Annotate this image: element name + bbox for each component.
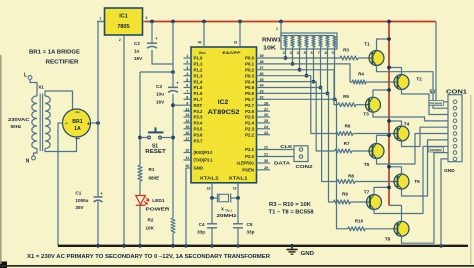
svg-text:R1: R1 xyxy=(149,167,155,172)
resistor R5 xyxy=(338,94,356,107)
wire BR1 minus to ground corner xyxy=(58,123,63,246)
svg-text:XTAL2: XTAL2 xyxy=(200,176,220,181)
svg-text:6: 6 xyxy=(186,84,188,88)
svg-text:31: 31 xyxy=(234,41,238,45)
crystal XTAL 20MHz xyxy=(212,194,238,218)
junction ground bus x140 xyxy=(138,244,142,248)
pin 27 P2.6 of IC2 xyxy=(245,107,270,114)
svg-text:BR1 = 1A BRIDGE: BR1 = 1A BRIDGE xyxy=(29,50,81,56)
svg-text:RECTIFIER: RECTIFIER xyxy=(46,59,79,65)
svg-text:7: 7 xyxy=(318,51,320,55)
pin 17 P3.7 of IC2 xyxy=(184,137,203,144)
svg-text:P3.5: P3.5 xyxy=(194,127,203,132)
svg-text:−: − xyxy=(65,121,68,127)
junction ground bus x238 xyxy=(236,244,240,248)
svg-text:X1 = 230V AC PRIMARY TO SECOND: X1 = 230V AC PRIMARY TO SECONDARY TO 0 –… xyxy=(27,254,270,260)
wire R6 to T4 base xyxy=(353,133,394,135)
wire IC1 input from BR1 plus xyxy=(98,22,105,198)
label XTAL2 xyxy=(200,176,220,181)
pin 21 P2.0 of IC2 xyxy=(245,153,268,160)
svg-text:33p: 33p xyxy=(247,230,255,235)
svg-text:L: L xyxy=(24,73,27,79)
svg-text:T8: T8 xyxy=(385,237,391,243)
pin 32 P0.7 of IC2 xyxy=(245,96,263,103)
wire T4 collector ROW3 to CON1 pin5 xyxy=(402,127,449,146)
svg-text:P1.0: P1.0 xyxy=(194,56,203,61)
pin 11 (TXD)P3.1 of IC2 xyxy=(184,156,214,163)
svg-text:13: 13 xyxy=(185,113,189,117)
wire BR1 plus xyxy=(91,122,99,124)
pin 37 P0.2 of IC2 xyxy=(245,66,263,73)
svg-text:IC2: IC2 xyxy=(218,99,229,106)
caption X1 transformer xyxy=(27,254,270,260)
label ROW7 xyxy=(429,147,444,152)
note R3 - R10 = 10K xyxy=(269,202,311,208)
svg-text:R8: R8 xyxy=(348,174,354,179)
wire P0.7 row xyxy=(257,99,348,229)
wire R8 to T6 base xyxy=(355,181,394,183)
svg-text:GND: GND xyxy=(301,251,315,257)
svg-text:3: 3 xyxy=(186,66,188,70)
led LED1 POWER xyxy=(136,181,171,213)
junction ground bus x173 xyxy=(171,244,175,248)
svg-text:40: 40 xyxy=(198,41,202,45)
svg-text:8: 8 xyxy=(186,96,188,100)
wire T2 emitter to +5V rail xyxy=(389,68,402,75)
+5V rail xyxy=(145,21,436,23)
transistor T7 xyxy=(364,190,382,210)
junction S1 right xyxy=(171,136,175,140)
wire P0.4 row xyxy=(257,82,335,151)
resistor R9 xyxy=(334,192,351,205)
svg-text:10K: 10K xyxy=(263,46,276,52)
svg-text:R4: R4 xyxy=(358,72,364,77)
terminal L xyxy=(24,73,32,80)
svg-text:C3: C3 xyxy=(156,84,162,89)
pin 3 P1.2 of IC2 xyxy=(184,66,203,73)
wire P0.2 row xyxy=(257,70,339,105)
pin 35 P0.4 of IC2 xyxy=(245,78,263,85)
wire RST line upper xyxy=(172,22,174,88)
label ROW0 xyxy=(429,101,444,106)
wire T7 emitter to +5V rail xyxy=(374,187,389,194)
pin 16 P3.6 of IC2 xyxy=(184,131,203,138)
svg-text:X1: X1 xyxy=(38,85,44,91)
svg-text:GND: GND xyxy=(194,166,204,171)
pin 15 P3.5 of IC2 xyxy=(184,125,203,132)
svg-text:P0.6: P0.6 xyxy=(245,91,254,96)
svg-text:10K: 10K xyxy=(146,225,155,230)
svg-text:15: 15 xyxy=(185,125,189,129)
junction tap on RST line xyxy=(171,70,175,74)
svg-text:9: 9 xyxy=(186,101,188,105)
svg-text:P2.6: P2.6 xyxy=(245,109,254,114)
svg-text:20MHz: 20MHz xyxy=(217,213,237,218)
svg-text:18: 18 xyxy=(207,187,211,191)
svg-text:C4: C4 xyxy=(199,222,205,227)
svg-text:(TXD)P3.1: (TXD)P3.1 xyxy=(194,158,214,163)
svg-text:1000u: 1000u xyxy=(75,198,88,203)
svg-text:3: 3 xyxy=(290,51,292,55)
svg-text:CLK: CLK xyxy=(280,144,293,150)
junction RNW1 pin 9 to P0.7 xyxy=(333,97,337,101)
svg-text:26: 26 xyxy=(264,113,268,117)
wire T6 collector ROW5 to CON1 pin7 xyxy=(402,140,449,196)
svg-text:P1.5: P1.5 xyxy=(194,85,203,90)
wire P0.0 row xyxy=(257,57,341,59)
svg-text:P2.7: P2.7 xyxy=(245,103,254,108)
transistor T5 xyxy=(364,144,384,169)
wire T1 collector ROW0 to CON1 pin2 xyxy=(377,65,449,108)
wire RST to IC2 pin 9 xyxy=(173,104,191,106)
pin 7 P1.6 of IC2 xyxy=(184,90,203,97)
junction rail x240 xyxy=(238,20,242,24)
wire T8 collector ROW7 to CON1 pin9 xyxy=(402,153,449,244)
svg-text:P0.4: P0.4 xyxy=(245,79,254,84)
junction RNW1 pin 7 to P0.5 xyxy=(319,86,323,90)
junction rail x204 xyxy=(202,20,206,24)
svg-text:P1.7: P1.7 xyxy=(194,97,203,102)
resistor R1 680E xyxy=(138,165,159,181)
svg-text:BR1: BR1 xyxy=(72,119,82,125)
wire P0.1 row xyxy=(257,64,353,82)
svg-text:1: 1 xyxy=(100,17,102,21)
junction ground bus x124 xyxy=(122,244,126,248)
pin 6 of RNW1 xyxy=(311,47,314,82)
svg-text:T6: T6 xyxy=(414,179,420,185)
svg-text:3: 3 xyxy=(146,16,148,20)
svg-text:230VAC: 230VAC xyxy=(8,117,30,122)
svg-text:POWER: POWER xyxy=(146,207,171,213)
wire T1 emitter to +5V rail xyxy=(377,39,390,51)
pin 9 of RNW1 xyxy=(332,47,335,99)
svg-text:9: 9 xyxy=(332,51,334,55)
pin 10 (RXD)P3.0 of IC2 xyxy=(184,149,214,156)
pin 25 P2.4 of IC2 xyxy=(245,119,270,126)
transistor T4 xyxy=(394,122,410,142)
svg-text:Vcc: Vcc xyxy=(198,50,206,55)
svg-text:P0.0: P0.0 xyxy=(245,56,254,61)
junction RST pin xyxy=(171,103,175,107)
junction crystal right xyxy=(236,196,240,200)
svg-text:P2.4: P2.4 xyxy=(245,121,254,126)
junction rail T5 emitter xyxy=(387,133,391,137)
resistor R8 xyxy=(337,174,355,184)
svg-text:7805: 7805 xyxy=(117,24,129,30)
svg-text:X: X xyxy=(221,207,224,212)
svg-text:N: N xyxy=(26,159,30,165)
resistor network RNW1 xyxy=(262,22,337,52)
svg-text:20: 20 xyxy=(185,164,189,168)
svg-text:P0.7: P0.7 xyxy=(245,97,254,102)
label GND at CON1 xyxy=(444,168,455,174)
wire 5V feed to CON1 xyxy=(436,22,448,102)
wire P0.5 row xyxy=(257,88,338,182)
pin 8 P1.7 of IC2 xyxy=(184,96,203,103)
pin 1 P1.0 of IC2 xyxy=(184,54,203,61)
svg-text:P2.3: P2.3 xyxy=(245,127,254,132)
svg-text:R5: R5 xyxy=(343,94,349,99)
wire T7 collector ROW6 to CON1 pin8 xyxy=(374,146,448,213)
wire L to primary xyxy=(30,79,37,96)
svg-text:R2: R2 xyxy=(148,218,154,223)
resistor R10 xyxy=(348,219,366,231)
svg-text:P2.2: P2.2 xyxy=(245,132,254,137)
svg-text:17: 17 xyxy=(185,137,189,141)
svg-text:PSEN: PSEN xyxy=(242,168,254,173)
svg-text:LED1: LED1 xyxy=(152,198,165,204)
wire R5 to T3 base xyxy=(356,104,366,106)
svg-text:T2: T2 xyxy=(416,77,422,83)
transistor T3 xyxy=(363,97,380,117)
svg-text:T7: T7 xyxy=(364,190,370,196)
svg-text:P1.2: P1.2 xyxy=(194,68,203,73)
microcontroller IC2 AT89C52 xyxy=(191,47,257,183)
ground symbol GND xyxy=(287,244,315,257)
label CLK xyxy=(280,144,293,150)
junction RNW1 pin 5 to P0.3 xyxy=(305,74,309,78)
junction RNW1 pin 8 to P0.6 xyxy=(326,92,330,96)
svg-text:R9: R9 xyxy=(342,192,348,197)
pin 5 P1.4 of IC2 xyxy=(184,78,203,85)
junction RNW1 pin 6 to P0.4 xyxy=(312,80,316,84)
wire CON1 pin10 to ground xyxy=(441,159,448,246)
svg-text:16V: 16V xyxy=(134,56,143,61)
wire R2 to ground xyxy=(172,233,174,246)
svg-text:33p: 33p xyxy=(197,230,205,235)
svg-text:7: 7 xyxy=(186,90,188,94)
svg-text:P0.3: P0.3 xyxy=(245,73,254,78)
svg-text:P3.4: P3.4 xyxy=(194,121,203,126)
junction rail T4 emitter xyxy=(387,119,391,123)
junction rail T3 emitter xyxy=(387,88,391,92)
wire IC1 pin2 to ground xyxy=(123,35,125,246)
svg-text:1: 1 xyxy=(276,27,278,31)
svg-text:EA/VPP: EA/VPP xyxy=(223,50,241,55)
pin 12 P3.2 of IC2 xyxy=(184,107,203,114)
wire R4 to T2 base xyxy=(366,81,394,83)
svg-text:P1.3: P1.3 xyxy=(194,73,203,78)
svg-text:23: 23 xyxy=(264,131,268,135)
junction ground bus x186 xyxy=(184,244,188,248)
svg-text:P1.1: P1.1 xyxy=(194,62,203,67)
svg-text:(RXD)P3.0: (RXD)P3.0 xyxy=(194,150,214,155)
svg-text:35V: 35V xyxy=(75,205,84,210)
svg-text:P0.1: P0.1 xyxy=(245,62,254,67)
pin 39 P0.0 of IC2 xyxy=(245,54,263,61)
pin 4 P1.3 of IC2 xyxy=(184,72,203,79)
pin 33 P0.6 of IC2 xyxy=(245,90,263,97)
junction crystal left xyxy=(210,196,214,200)
svg-text:2: 2 xyxy=(186,60,188,64)
svg-text:+: + xyxy=(87,121,90,127)
label 5V xyxy=(429,89,436,95)
svg-text:∼: ∼ xyxy=(75,137,80,143)
switch S1 RESET xyxy=(140,127,173,155)
connector CON2 xyxy=(294,146,313,170)
junction RNW1 pin 3 to P0.1 xyxy=(291,62,295,66)
pin 40 Vcc stub xyxy=(198,22,204,48)
note T1 - T8 = BC558 xyxy=(269,210,314,216)
transformer X1 xyxy=(32,85,50,152)
svg-text:P0.5: P0.5 xyxy=(245,85,254,90)
svg-text:P3.3: P3.3 xyxy=(194,115,203,120)
junction rail x152 xyxy=(150,20,154,24)
junction ground bus x98 xyxy=(96,244,100,248)
pin 23 P2.2 of IC2 xyxy=(245,131,270,138)
svg-text:10u: 10u xyxy=(156,92,164,97)
wire T2 collector ROW1 to CON1 pin3 xyxy=(402,89,449,114)
page border frame xyxy=(0,55,474,267)
wire P2.0 to CON2 DATA xyxy=(257,156,295,158)
pin 4 of RNW1 xyxy=(297,47,300,70)
svg-text:∼: ∼ xyxy=(75,110,80,116)
wire LED1 to ground xyxy=(139,205,141,246)
junction RNW1 pin 2 to P0.0 xyxy=(284,56,288,60)
pin 24 P2.3 of IC2 xyxy=(245,125,270,132)
svg-text:C5: C5 xyxy=(247,222,253,227)
pin 5 of RNW1 xyxy=(304,47,307,76)
svg-text:C1: C1 xyxy=(75,191,81,196)
pin 9 RST of IC2 xyxy=(186,101,202,108)
junction rail T7 emitter xyxy=(387,186,391,190)
+5V rail vertical xyxy=(388,22,390,206)
wire secondary top to BR1 xyxy=(45,91,73,110)
regulator IC1 7805 xyxy=(105,8,143,35)
svg-text:T3: T3 xyxy=(363,112,369,118)
svg-text:680E: 680E xyxy=(149,176,160,181)
svg-text:XTAL1: XTAL1 xyxy=(229,176,249,181)
svg-text:ROW0: ROW0 xyxy=(430,101,442,105)
junction rail T2 emitter xyxy=(387,66,391,70)
wire R3 to T1 base xyxy=(358,57,369,59)
capacitor C1 1000u xyxy=(75,191,103,246)
pin 34 P0.5 of IC2 xyxy=(245,84,264,91)
svg-text:P2.5: P2.5 xyxy=(245,115,254,120)
resistor R4 xyxy=(352,72,366,85)
svg-text:IC1: IC1 xyxy=(119,14,128,20)
pin 19 XTAL1 stub xyxy=(233,183,238,198)
transistor T8 xyxy=(385,221,409,242)
svg-text:R7: R7 xyxy=(344,141,350,146)
wire T6 emitter to +5V rail xyxy=(389,167,402,174)
svg-text:1u: 1u xyxy=(134,49,140,54)
svg-text:2: 2 xyxy=(119,38,121,42)
svg-text:RESET: RESET xyxy=(145,149,166,155)
svg-text:RNW1: RNW1 xyxy=(262,38,281,44)
wire P2.1 to CON2 CLK xyxy=(257,149,295,151)
svg-text:2: 2 xyxy=(283,51,285,55)
pin 3 of IC1 xyxy=(143,16,148,22)
junction S1 left xyxy=(138,136,142,140)
pin 8 of RNW1 xyxy=(325,47,328,93)
svg-text:25: 25 xyxy=(264,119,268,123)
svg-text:R3: R3 xyxy=(343,48,349,53)
pin 28 P2.7 of IC2 xyxy=(245,101,270,108)
svg-text:GND: GND xyxy=(444,168,455,174)
label XTAL1 xyxy=(229,176,249,181)
wire T4 emitter to +5V rail xyxy=(389,121,402,126)
svg-text:30: 30 xyxy=(264,159,268,163)
pin 2 P1.1 of IC2 xyxy=(184,60,203,67)
resistor R6 xyxy=(336,124,353,136)
pin 29 PSEN of IC2 xyxy=(242,166,270,173)
pin 6 P1.5 of IC2 xyxy=(184,84,203,91)
svg-text:RST: RST xyxy=(194,103,203,108)
svg-text:T1: T1 xyxy=(364,42,370,48)
junction rail T6 emitter xyxy=(387,165,391,169)
ground bus xyxy=(58,245,468,247)
svg-text:R10: R10 xyxy=(355,219,364,224)
wire primary to N xyxy=(34,149,38,157)
label CON1 xyxy=(446,89,467,95)
junction rail T1 emitter xyxy=(387,37,391,41)
wire T3 emitter to +5V rail xyxy=(373,90,389,97)
svg-text:AT89C52: AT89C52 xyxy=(208,109,240,116)
pin 38 P0.1 of IC2 xyxy=(245,60,263,67)
wire R7 to T5 base xyxy=(352,150,369,152)
wire T5 collector ROW4 to CON1 pin6 xyxy=(377,134,449,165)
pin 3 of RNW1 xyxy=(290,47,293,64)
wire IC2 GND pin to ground bus xyxy=(185,168,187,246)
pin 2 of RNW1 xyxy=(283,47,286,58)
pin 13 P3.3 of IC2 xyxy=(184,113,203,120)
transistor T2 xyxy=(394,75,422,90)
svg-text:10: 10 xyxy=(185,149,189,153)
wire LED branch xyxy=(139,72,141,165)
wire P0.6 row xyxy=(257,93,334,202)
svg-text:C2: C2 xyxy=(134,41,140,46)
svg-text:P2.0: P2.0 xyxy=(245,154,254,159)
svg-text:8: 8 xyxy=(325,51,327,55)
svg-text:T4: T4 xyxy=(404,122,410,128)
svg-text:P3.6: P3.6 xyxy=(194,132,203,137)
pin 26 P2.5 of IC2 xyxy=(245,113,270,120)
svg-text:ROW7: ROW7 xyxy=(430,148,442,152)
svg-text:5: 5 xyxy=(304,51,306,55)
svg-text:16V: 16V xyxy=(156,100,165,105)
svg-text:29: 29 xyxy=(264,166,268,170)
wire RST line lower xyxy=(172,94,174,218)
svg-text:12: 12 xyxy=(185,107,189,111)
wire R9 to T7 base xyxy=(350,201,366,203)
junction rail x173 xyxy=(171,20,175,24)
pin 30 ALE/PROG of IC2 xyxy=(237,159,271,166)
transistor T6 xyxy=(394,174,420,189)
junction rail x281 xyxy=(279,20,283,24)
capacitor C3 10u xyxy=(156,81,179,105)
svg-text:11: 11 xyxy=(185,156,189,160)
svg-text:19: 19 xyxy=(233,187,237,191)
junction BR1 plus xyxy=(96,121,100,125)
svg-text:P2.1: P2.1 xyxy=(245,147,254,152)
capacitor C4 33p xyxy=(197,198,217,246)
wire secondary bottom to BR1 xyxy=(45,137,77,152)
svg-text:P0.2: P0.2 xyxy=(245,68,254,73)
svg-text:16: 16 xyxy=(185,131,189,135)
pin 36 P0.3 of IC2 xyxy=(245,72,263,79)
svg-text:28: 28 xyxy=(264,101,268,105)
svg-text:27: 27 xyxy=(264,107,268,111)
transistor T1 xyxy=(364,42,384,66)
bridge rectifier BR1 xyxy=(63,109,91,143)
resistor R7 xyxy=(335,141,352,153)
svg-text:P3.2: P3.2 xyxy=(194,109,203,114)
svg-text:1A: 1A xyxy=(74,126,81,132)
wire P0.3 row xyxy=(257,76,337,134)
page corner mark xyxy=(0,262,7,268)
svg-text:P3.7: P3.7 xyxy=(194,138,203,143)
